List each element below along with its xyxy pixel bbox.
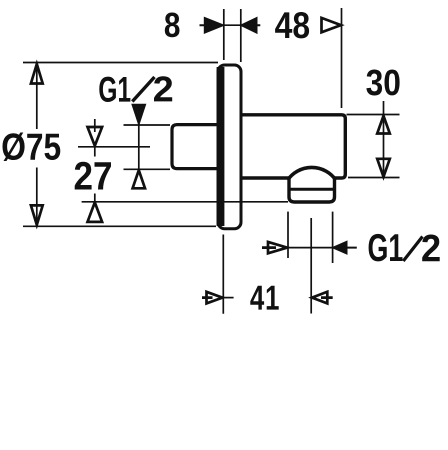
dimension line 30 (vertical, with stub to label) [383,101,385,178]
label: 8 [165,13,180,38]
arrow: 8-dim left (points right at wall face) [200,18,223,32]
extension line: wall face (8-dim left) [223,9,225,60]
inlet pipe stub (G1/2, behind flange) [172,125,220,169]
label: 27 [75,162,111,190]
arrow: dia75 bottom (open, points down) [31,205,43,225]
extension line: body top (30-dim) [347,114,400,116]
extension line: flange top (dia75 top) [23,62,218,64]
arrow: 27 bottom (open, points up at outlet bottom line) [88,202,103,222]
arrow: 30 top (open, points up) [377,116,390,134]
extension line: flange front face (8-dim right / 48-dim left) [240,9,242,62]
arrow: dia75 top (open, points up) [31,64,43,84]
arrow: lower G1/2 right (filled, points left at outlet right line) [333,242,356,253]
arrow: G1/2 inlet bottom (open, points up at pipe bottom line) [133,170,145,188]
label: 30 [366,70,399,96]
flange (wall escutcheon, side view) [217,65,241,229]
dimension line G1/2 inlet (vertical through thread span) [138,124,140,171]
extension line: body right end (48-dim right) [341,8,343,108]
dimension line 41 (stub right of wall line) [223,297,233,299]
arrow: 41 right (open, points left at outlet axis, with tail) [312,292,333,304]
arrow: lower G1/2 left (open, points right at outlet left line) [262,242,287,253]
outlet centerline (axis, down to 41-dim) [310,218,312,314]
extension line: outlet left edge (lower G1/2) [287,212,289,258]
outlet mid line (cap seam) [288,188,336,191]
label: 41 [250,286,278,310]
label: G1/2 (outlet thread) [369,234,440,262]
arrow: G1/2 inlet top (filled, points down at pipe top line) [133,105,145,124]
extension line: wall face lower (41-dim left) [222,235,224,314]
arrow: 41 left (open, points right at wall line, with tail) [202,292,222,304]
extension line: pipe bottom (G1/2 thread) [124,168,171,170]
arrow: 8-dim right / 48-dim left (points left at flange front) [242,18,261,32]
label: 48 [275,12,309,38]
extension line: flange bottom (dia75 bottom) [23,225,216,227]
dimension line lower G1/2 (across outlet) [288,247,333,249]
extension line: body bottom (30-dim) [348,177,400,179]
arrow: 27 top (open, points down at centerline) [88,127,103,146]
extension line: outlet bottom plane (27-dim lower reference) [82,201,288,203]
extension line: pipe top (G1/2 thread) [124,124,171,126]
dimension line 8 (between wall face and flange front) [224,24,241,26]
arrow: 48-dim right (open, points right at body end line) [322,18,341,32]
body (horizontal elbow body) [241,115,345,178]
outlet spout (G1/2, downward) [289,179,335,203]
pipe centerline (inlet axis) [78,146,150,148]
label: dia75 [3,133,61,162]
extension line: outlet right edge (lower G1/2) [332,212,334,263]
outlet top arc (dome over outlet) [288,167,336,180]
arrow: 30 bottom (open, points down) [377,159,390,177]
dimension line 27 (axis to outlet bottom, stubs) [94,119,96,202]
dimension line dia75 (vertical, interrupted by label) [36,63,38,227]
label: G1/2 (inlet thread) [99,76,172,102]
